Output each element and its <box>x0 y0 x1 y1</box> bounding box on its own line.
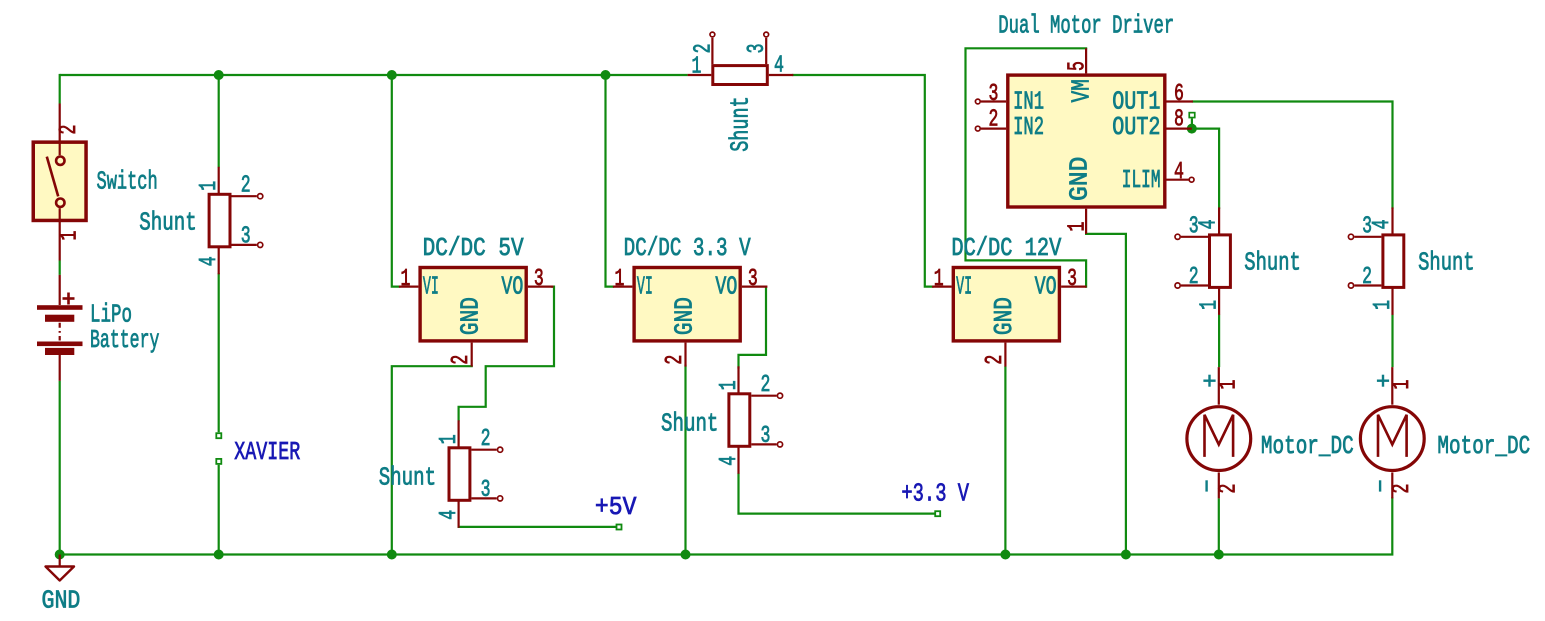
regulator U2 pin 1 wire <box>613 286 633 288</box>
wire XAVIER label to ground bus <box>218 465 220 555</box>
svg-text:Shunt: Shunt <box>379 462 436 492</box>
wire top bus right section to DC/DC 12V VI <box>793 75 932 287</box>
regulator U1 body <box>420 268 526 341</box>
svg-text:Shunt: Shunt <box>1418 247 1475 277</box>
motor driver U4 pin 8 wire <box>1167 128 1192 130</box>
svg-text:1: 1 <box>1065 222 1092 232</box>
junction ground bus / DC/DC 12V GND <box>1000 550 1010 560</box>
motor M2 body <box>1360 367 1424 498</box>
svg-text:GND: GND <box>670 297 700 335</box>
svg-text:VO: VO <box>501 271 523 301</box>
resistor shunt R5 body <box>1175 207 1230 315</box>
svg-text:Battery: Battery <box>90 325 159 355</box>
svg-text:2: 2 <box>989 107 999 134</box>
svg-text:IN2: IN2 <box>1013 112 1044 142</box>
svg-text:2: 2 <box>449 355 476 365</box>
net label XAVIER anchor squares <box>216 433 221 464</box>
svg-text:GND: GND <box>1064 157 1094 201</box>
svg-text:Shunt: Shunt <box>725 96 755 152</box>
svg-text:2: 2 <box>982 355 1009 365</box>
wire DC/DC 5V VO to shunt R3 <box>459 287 554 421</box>
motor M1 plus mark <box>1203 375 1215 387</box>
regulator U2 body <box>634 268 740 341</box>
svg-text:XAVIER: XAVIER <box>234 437 300 467</box>
wire motor M1 to ground bus <box>1218 498 1220 554</box>
svg-text:2: 2 <box>241 173 251 200</box>
svg-text:6: 6 <box>1174 81 1184 108</box>
motor driver U4 body <box>1008 75 1165 207</box>
svg-text:1: 1 <box>692 54 702 81</box>
wire battery to ground bus <box>59 381 61 555</box>
svg-text:3: 3 <box>748 266 758 293</box>
svg-text:4: 4 <box>1174 159 1184 186</box>
svg-text:Dual Motor Driver: Dual Motor Driver <box>998 10 1174 40</box>
motor driver U4 pin 4 wire <box>1167 177 1195 182</box>
net flag on OUT2 node <box>1189 113 1195 125</box>
resistor shunt R4 body <box>729 366 783 474</box>
svg-text:5: 5 <box>1065 61 1092 71</box>
regulator U1 pin 1 wire <box>399 286 419 288</box>
resistor shunt R6 body <box>1348 207 1403 315</box>
wire motor driver OUT2 to shunt R5 <box>1192 129 1219 208</box>
resistor shunt R2 body <box>209 167 263 274</box>
svg-text:2: 2 <box>761 373 771 400</box>
svg-text:4: 4 <box>1196 219 1223 229</box>
motor M1 minus mark <box>1205 480 1207 491</box>
battery BT1 body <box>37 275 83 381</box>
svg-text:1: 1 <box>716 380 743 390</box>
regulator U3 pin 1 wire <box>932 286 952 288</box>
svg-text:DC/DC 5V: DC/DC 5V <box>423 233 525 263</box>
regulator U3 body <box>953 268 1059 341</box>
wire shunt R5 to motor M1 <box>1218 315 1220 368</box>
svg-text:VM: VM <box>1066 79 1096 102</box>
junction OUT2 node <box>1187 124 1197 134</box>
svg-text:GND: GND <box>989 297 1019 335</box>
svg-text:VO: VO <box>1035 271 1057 301</box>
regulator U1 pin 3 wire <box>528 286 554 288</box>
svg-text:3: 3 <box>1189 214 1199 241</box>
regulator U2 pin 2 wire <box>684 343 686 367</box>
junction ground bus / motor M1 <box>1214 550 1224 560</box>
motor driver U4 pin 6 wire <box>1167 100 1193 102</box>
svg-text:Shunt: Shunt <box>661 408 718 438</box>
svg-text:1: 1 <box>1370 300 1397 310</box>
svg-text:Motor_DC: Motor_DC <box>1437 431 1530 461</box>
svg-text:2: 2 <box>691 43 718 53</box>
motor M1 body <box>1187 367 1251 498</box>
svg-text:4: 4 <box>197 256 224 266</box>
wire DC/DC 12V GND to ground bus <box>1004 366 1006 554</box>
svg-text:Shunt: Shunt <box>1244 247 1301 277</box>
wire shunt R2 to XAVIER label <box>218 273 220 432</box>
junction ground bus / DC/DC 5V GND <box>387 550 397 560</box>
svg-text:1: 1 <box>197 181 224 191</box>
regulator U3 pin 2 wire <box>1004 343 1006 367</box>
svg-text:3: 3 <box>241 224 251 251</box>
regulator U1 pin 2 wire <box>471 343 473 367</box>
svg-text:1: 1 <box>1216 380 1243 390</box>
svg-text:1: 1 <box>436 434 463 444</box>
svg-text:VO: VO <box>715 271 737 301</box>
junction ground bus / battery <box>55 550 65 560</box>
svg-text:2: 2 <box>662 355 689 365</box>
switch SW1 body <box>33 104 86 261</box>
wire DC/DC 5V GND to ground bus <box>392 366 472 554</box>
svg-text:DC/DC 3.3 V: DC/DC 3.3 V <box>624 233 751 263</box>
svg-text:1: 1 <box>57 231 84 241</box>
wire top bus to DC/DC 3.3V VI <box>606 75 614 287</box>
wire top bus to DC/DC 5V VI <box>392 75 399 287</box>
svg-text:1: 1 <box>400 266 410 293</box>
svg-text:1: 1 <box>1389 380 1416 390</box>
junction top bus / DC/DC 5V <box>387 70 397 80</box>
wire motor driver OUT1 to shunt R6 <box>1193 102 1393 208</box>
wire shunt R6 to motor M2 <box>1391 315 1393 368</box>
motor M2 minus mark <box>1379 480 1381 491</box>
svg-text:VI: VI <box>956 271 972 301</box>
svg-text:8: 8 <box>1174 107 1184 134</box>
svg-text:1: 1 <box>934 266 944 293</box>
motor driver U4 pin 3 wire <box>975 99 1006 104</box>
wire switch feed <box>59 74 61 104</box>
svg-text:ILIM: ILIM <box>1122 165 1161 195</box>
wire DC/DC 3.3V GND to ground bus <box>684 365 686 555</box>
battery BT1 plus sign <box>63 293 75 305</box>
wire switch to battery <box>59 261 61 275</box>
motor driver U4 pin 5 wire <box>1085 48 1087 73</box>
junction top bus / DC/DC 3.3V <box>601 70 611 80</box>
motor M2 plus mark <box>1377 375 1389 387</box>
regulator U3 pin 3 wire <box>1061 286 1087 288</box>
svg-text:3: 3 <box>481 477 491 504</box>
svg-text:Motor_DC: Motor_DC <box>1261 431 1354 461</box>
svg-text:+5V: +5V <box>595 492 637 522</box>
svg-text:2: 2 <box>1189 264 1199 291</box>
svg-text:VI: VI <box>423 271 439 301</box>
svg-text:4: 4 <box>1369 219 1396 229</box>
ground symbol <box>46 555 75 581</box>
svg-text:2: 2 <box>1216 484 1243 494</box>
svg-text:Switch: Switch <box>97 166 158 196</box>
junction ground bus / DC/DC 3.3V GND <box>681 550 691 560</box>
svg-text:1: 1 <box>614 266 624 293</box>
svg-text:+3.3 V: +3.3 V <box>901 478 969 508</box>
wire shunt R4 to +3.3V label <box>739 474 935 513</box>
svg-text:Shunt: Shunt <box>139 207 196 237</box>
junction top bus / R2 <box>214 70 224 80</box>
svg-text:GND: GND <box>456 297 486 335</box>
wire top bus left section <box>60 74 688 76</box>
svg-text:1: 1 <box>1197 300 1224 310</box>
wire shunt R3 to +5V label <box>459 526 616 528</box>
junction ground bus / XAVIER <box>214 550 224 560</box>
svg-text:OUT2: OUT2 <box>1112 112 1160 142</box>
regulator U2 pin 3 wire <box>742 286 768 288</box>
net label +5V anchor square <box>617 525 622 530</box>
svg-text:4: 4 <box>436 510 463 520</box>
motor driver U4 pin 2 wire <box>975 126 1006 131</box>
wire top bus to shunt R2 <box>218 75 220 167</box>
svg-text:3: 3 <box>761 423 771 450</box>
resistor shunt R3 body <box>449 420 503 528</box>
junction ground bus / motor driver GND <box>1121 550 1131 560</box>
svg-text:3: 3 <box>534 266 544 293</box>
wire DC/DC 12V VO to motor driver VM <box>966 48 1087 286</box>
wire bottom ground bus <box>60 498 1393 554</box>
svg-text:3: 3 <box>1067 266 1077 293</box>
svg-text:2: 2 <box>56 125 83 135</box>
resistor shunt R1 body <box>688 32 794 84</box>
svg-text:4: 4 <box>716 456 743 466</box>
wire DC/DC 3.3V VO to shunt R4 <box>739 287 767 368</box>
svg-text:3: 3 <box>745 43 772 53</box>
net label +3.3V anchor square <box>935 511 940 516</box>
svg-text:DC/DC 12V: DC/DC 12V <box>951 233 1062 263</box>
svg-text:GND: GND <box>42 585 81 615</box>
svg-text:2: 2 <box>1362 264 1372 291</box>
svg-text:4: 4 <box>774 53 784 80</box>
svg-text:2: 2 <box>1389 484 1416 494</box>
wire motor driver GND pin 1 to ground bus <box>1086 234 1126 555</box>
svg-text:3: 3 <box>1362 214 1372 241</box>
motor driver U4 pin 1 wire <box>1085 209 1087 234</box>
svg-text:VI: VI <box>637 271 653 301</box>
svg-text:3: 3 <box>989 81 999 108</box>
svg-text:2: 2 <box>481 427 491 454</box>
